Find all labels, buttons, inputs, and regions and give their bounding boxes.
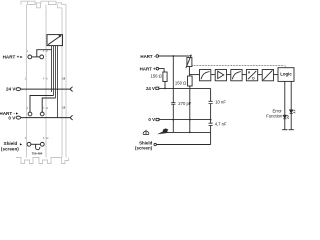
- svg-text:Logic: Logic: [280, 71, 292, 76]
- svg-text:HART +: HART +: [140, 66, 156, 71]
- svg-text:750-484: 750-484: [32, 152, 43, 156]
- svg-text:10: 10: [62, 76, 65, 80]
- svg-text:Shield: Shield: [139, 140, 152, 145]
- svg-text:(screen): (screen): [135, 146, 153, 151]
- svg-text:7: 7: [43, 108, 45, 110]
- svg-text:4: 4: [43, 78, 45, 80]
- svg-text:9: 9: [46, 51, 48, 53]
- svg-text:1: 1: [27, 51, 29, 53]
- svg-text:4,7 nF: 4,7 nF: [215, 122, 227, 127]
- svg-text:11: 11: [46, 108, 49, 110]
- svg-text:8: 8: [43, 138, 45, 140]
- svg-text:150 Ω: 150 Ω: [151, 74, 162, 79]
- svg-text:10 nF: 10 nF: [215, 100, 226, 105]
- svg-text:HART -: HART -: [140, 54, 155, 59]
- svg-text:150 Ω: 150 Ω: [175, 80, 186, 85]
- svg-text:0 V: 0 V: [148, 117, 155, 122]
- svg-text:24 V: 24 V: [6, 87, 16, 92]
- svg-text:HART +: HART +: [3, 54, 20, 59]
- svg-text:5: 5: [43, 51, 45, 53]
- svg-text:24 V: 24 V: [146, 86, 155, 91]
- svg-text:6: 6: [46, 78, 48, 80]
- svg-text:0 V: 0 V: [8, 115, 16, 120]
- svg-text:12: 12: [62, 106, 65, 110]
- svg-text:A: A: [248, 70, 251, 74]
- svg-text:3: 3: [27, 108, 29, 110]
- svg-text:(screen): (screen): [1, 146, 19, 151]
- svg-text:D: D: [252, 77, 255, 81]
- svg-text:270 pF: 270 pF: [178, 101, 191, 106]
- svg-text:12: 12: [46, 138, 49, 140]
- svg-text:Function: Function: [266, 114, 283, 119]
